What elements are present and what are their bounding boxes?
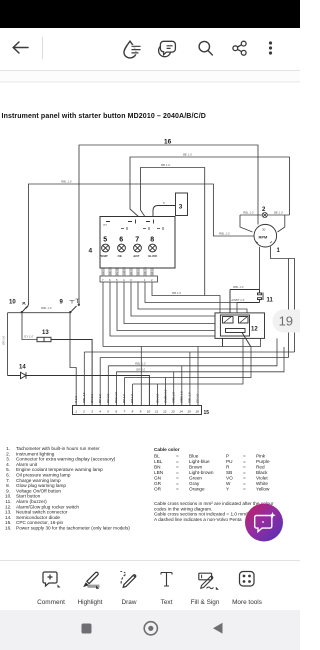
- page top edge: [0, 82, 300, 83]
- svg-text:12.: 12.: [5, 504, 12, 509]
- svg-text:Comment: Comment: [37, 599, 65, 606]
- svg-text:GR 1.0: GR 1.0: [136, 367, 146, 371]
- svg-text:Instrument lighting: Instrument lighting: [16, 451, 55, 456]
- svg-text:16: 16: [164, 138, 172, 145]
- svg-text:RB 1.0: RB 1.0: [130, 394, 134, 403]
- svg-text:GN 1.0: GN 1.0: [156, 393, 160, 403]
- toolbar labels: [37, 599, 262, 606]
- buzzer 11: [230, 285, 274, 317]
- toolbar divider: [42, 37, 43, 59]
- svg-text:GN 1.0: GN 1.0: [103, 267, 105, 275]
- svg-text:White: White: [256, 481, 268, 486]
- svg-text:=: =: [243, 459, 246, 464]
- alarm unit panel 4: [89, 217, 176, 269]
- svg-text:SB: SB: [226, 470, 232, 475]
- svg-text:=: =: [243, 481, 246, 486]
- svg-text:BB 1.0: BB 1.0: [161, 163, 170, 167]
- svg-text:TEMP: TEMP: [100, 254, 108, 258]
- fill & sign icon: [199, 573, 212, 580]
- svg-text:PT: PT: [104, 223, 108, 227]
- svg-text:30: 30: [262, 228, 266, 232]
- svg-text:GY 1.0: GY 1.0: [24, 335, 33, 339]
- svg-text:Instrument panel with starter: Instrument panel with starter button MD2…: [2, 113, 206, 120]
- search icon: [199, 41, 212, 55]
- svg-text:8.: 8.: [6, 483, 10, 488]
- svg-text:9.: 9.: [6, 488, 10, 493]
- svg-text:5.: 5.: [6, 467, 10, 472]
- wire pin3 drop: [131, 282, 215, 316]
- comment tool icon: [43, 572, 57, 586]
- svg-text:=: =: [176, 476, 179, 481]
- svg-text:3.: 3.: [6, 457, 10, 462]
- svg-text:Connector for extra warning di: Connector for extra warning display (acc…: [16, 457, 116, 462]
- bus L6: [125, 347, 252, 378]
- start button 10: [9, 300, 29, 313]
- svg-text:CPC connector, 16-pin: CPC connector, 16-pin: [16, 520, 64, 525]
- svg-text:Black: Black: [256, 470, 268, 475]
- svg-text:10: 10: [147, 410, 151, 414]
- svg-text:OR: OR: [154, 487, 162, 492]
- lamp 8 GLOW warning: [149, 244, 157, 252]
- text tool icon: [161, 573, 172, 587]
- svg-text:VO: VO: [226, 476, 233, 481]
- cable color table: [154, 447, 270, 492]
- svg-text:Semiconductor diode: Semiconductor diode: [16, 515, 60, 520]
- svg-text:WBL 1.0: WBL 1.0: [172, 392, 176, 403]
- wire buttons common rail: [2, 306, 77, 406]
- lamp 6 OIL warning: [118, 244, 126, 252]
- svg-text:13.: 13.: [5, 510, 12, 515]
- svg-text:RBL 1.0: RBL 1.0: [219, 232, 230, 236]
- wire pin6 drop: [110, 282, 215, 336]
- bus L7: [133, 338, 243, 384]
- svg-text:=: =: [176, 470, 179, 475]
- CPC connector 15: [73, 406, 210, 417]
- liquid mode icon: [124, 41, 141, 58]
- svg-text:15.: 15.: [5, 520, 12, 525]
- wire RBL 1.0 main: [29, 184, 255, 303]
- android nav bar: [0, 610, 300, 650]
- box 3 connector extra warning display: [153, 193, 188, 217]
- wire button10 to neutral switch: [22, 313, 37, 340]
- svg-text:Light-brown: Light-brown: [189, 470, 214, 475]
- svg-text:Cable color: Cable color: [154, 447, 180, 452]
- wire 16 label: [164, 138, 172, 145]
- svg-text:LBN 1.0: LBN 1.0: [124, 266, 126, 275]
- svg-text:RBL 1.0: RBL 1.0: [188, 392, 192, 403]
- toolbar back arrow: [13, 42, 28, 53]
- svg-text:Light-blue: Light-blue: [189, 459, 210, 464]
- svg-text:OR 1.0: OR 1.0: [106, 393, 110, 403]
- svg-text:Blue: Blue: [189, 454, 199, 459]
- svg-text:2: 2: [82, 410, 85, 414]
- wire RNBT to buzzer/rocker: [145, 282, 237, 317]
- svg-text:16.: 16.: [5, 526, 12, 531]
- svg-text:BN 1.0: BN 1.0: [131, 268, 133, 275]
- comment icon: [159, 41, 176, 56]
- neutral switch connector 13: [37, 330, 92, 406]
- svg-text:GR 1.0: GR 1.0: [196, 393, 200, 403]
- panel pin strip: [100, 266, 158, 282]
- wire BB 1.0: [141, 168, 205, 296]
- share icon: [233, 41, 246, 55]
- svg-text:11: 11: [155, 410, 158, 414]
- svg-text:RBL 1.0: RBL 1.0: [61, 180, 72, 184]
- wire RNBT to buzzer: [237, 302, 260, 304]
- page number badge 19: [273, 310, 313, 333]
- svg-text:LBN: LBN: [154, 470, 163, 475]
- svg-text:GR: GR: [154, 481, 162, 486]
- svg-text:11.: 11.: [5, 499, 11, 504]
- svg-text:3: 3: [179, 204, 183, 211]
- svg-text:Start button: Start button: [16, 494, 41, 499]
- svg-text:Green: Green: [189, 476, 202, 481]
- svg-text:8: 8: [150, 237, 154, 244]
- bus L3: [100, 357, 288, 359]
- bus L2: [84, 351, 294, 353]
- svg-text:OIL: OIL: [118, 254, 123, 258]
- wire pin5 drop: [117, 282, 215, 331]
- svg-text:Tachometer with built-in hours: Tachometer with built-in hours run meter: [16, 446, 100, 451]
- bus wires to CPC connector: [84, 338, 294, 405]
- svg-text:codes in the wiring diagram.: codes in the wiring diagram.: [154, 506, 212, 511]
- svg-text:A dashed line indicates a non-: A dashed line indicates a non-Volvo Pent…: [154, 517, 242, 522]
- svg-text:RBL 1.5: RBL 1.5: [82, 392, 86, 403]
- svg-text:12: 12: [163, 410, 167, 414]
- bus L4 RBL: [108, 338, 277, 365]
- svg-text:Gray: Gray: [189, 481, 200, 486]
- svg-text:RBL 1.0: RBL 1.0: [145, 266, 147, 275]
- svg-text:2.: 2.: [6, 451, 10, 456]
- svg-text:GNBN 1.0: GNBN 1.0: [164, 389, 168, 403]
- wire pin4 drop: [124, 282, 215, 324]
- tach bottom wires: [260, 246, 295, 357]
- svg-text:6.: 6.: [6, 473, 10, 478]
- overflow menu icon: [269, 41, 272, 54]
- svg-text:15: 15: [187, 410, 191, 414]
- toolbar bottom border: [0, 70, 300, 71]
- svg-text:=: =: [243, 487, 246, 492]
- svg-text:14: 14: [19, 365, 26, 371]
- rocker switch 12: [215, 313, 265, 347]
- svg-text:13: 13: [171, 410, 175, 414]
- svg-text:PU: PU: [226, 459, 233, 464]
- svg-text:13: 13: [42, 330, 49, 336]
- svg-text:=: =: [176, 487, 179, 492]
- svg-text:=: =: [176, 459, 179, 464]
- svg-text:Charge warning lamp: Charge warning lamp: [16, 478, 61, 483]
- wire button9 lower to pin1: [70, 313, 76, 406]
- svg-text:Red: Red: [256, 465, 265, 470]
- svg-text:14: 14: [179, 410, 183, 414]
- svg-text:19: 19: [279, 314, 293, 329]
- svg-text:Fill & Sign: Fill & Sign: [191, 599, 220, 606]
- svg-text:BY 1.0: BY 1.0: [117, 268, 119, 275]
- svg-text:P: P: [226, 454, 229, 459]
- svg-text:BE 1.0: BE 1.0: [183, 153, 192, 157]
- highlight tool icon: [88, 585, 100, 588]
- svg-text:Cable cross sections in mm² ar: Cable cross sections in mm² are indicate…: [154, 501, 274, 506]
- svg-text:Highlight: Highlight: [78, 599, 103, 606]
- svg-text:Alarm/Glow plug rocker switch: Alarm/Glow plug rocker switch: [16, 504, 79, 509]
- svg-text:GN: GN: [154, 476, 161, 481]
- svg-text:Voltage On/Off button: Voltage On/Off button: [16, 488, 61, 493]
- CPC pin cable labels: [74, 389, 200, 403]
- svg-text:Violet: Violet: [256, 476, 268, 481]
- svg-text:GLOW: GLOW: [148, 254, 157, 258]
- lamp 2 instrument lighting: [240, 207, 290, 232]
- svg-text:14.: 14.: [5, 515, 12, 520]
- svg-text:Yellow: Yellow: [256, 487, 270, 492]
- svg-text:=: =: [243, 470, 246, 475]
- svg-text:12: 12: [251, 327, 258, 333]
- svg-text:Text: Text: [161, 599, 173, 606]
- svg-text:Neutral switch connector: Neutral switch connector: [16, 510, 68, 515]
- svg-text:7.: 7.: [6, 478, 10, 483]
- wire pin7 drop: [102, 282, 104, 347]
- svg-text:RB 1.0: RB 1.0: [152, 268, 154, 275]
- svg-text:Engine coolant temperature war: Engine coolant temperature warning lamp: [16, 467, 103, 472]
- svg-text:OR 1.0: OR 1.0: [2, 335, 6, 345]
- svg-text:RBL 1.0: RBL 1.0: [243, 210, 254, 214]
- wire BE 1.0 instrument lighting feed: [130, 157, 290, 218]
- on/off button 9: [60, 299, 80, 313]
- svg-text:BY 1.0: BY 1.0: [98, 394, 102, 403]
- svg-text:BAT: BAT: [134, 254, 140, 258]
- svg-text:4.: 4.: [6, 462, 10, 467]
- svg-text:BL: BL: [154, 454, 160, 459]
- svg-text:Orange: Orange: [189, 487, 205, 492]
- warning lamps 5 6 7 8: [100, 237, 158, 259]
- svg-text:R 1.5: R 1.5: [74, 396, 78, 403]
- svg-text:1.: 1.: [6, 446, 10, 451]
- svg-text:Alarm unit: Alarm unit: [16, 462, 38, 467]
- svg-text:=: =: [176, 465, 179, 470]
- svg-text:GY 1.0: GY 1.0: [90, 394, 94, 403]
- svg-text:LBL: LBL: [154, 459, 163, 464]
- svg-text:Power supply 30 for the tachom: Power supply 30 for the tachometer (only…: [16, 526, 130, 531]
- bus L5 GR: [116, 347, 284, 372]
- wire RBL to buzzer: [230, 290, 260, 317]
- svg-text:5: 5: [103, 237, 107, 244]
- svg-text:RB 1.0: RB 1.0: [172, 291, 181, 295]
- svg-text:RPM: RPM: [259, 235, 269, 240]
- wire pin1 drop: [138, 282, 247, 313]
- svg-text:=: =: [243, 454, 246, 459]
- semiconductor diode 14: [8, 365, 150, 406]
- svg-text:RBL 1.0: RBL 1.0: [41, 306, 52, 310]
- svg-text:Brown: Brown: [189, 465, 203, 470]
- draw tool icon: [123, 575, 136, 588]
- svg-text:16: 16: [196, 410, 200, 414]
- svg-text:RBL 1.0: RBL 1.0: [233, 285, 244, 289]
- panel pin drop wires to bus: [103, 282, 247, 347]
- svg-text:6: 6: [119, 237, 123, 244]
- svg-text:RBL 1.0: RBL 1.0: [110, 266, 112, 275]
- svg-text:RBL 1.0: RBL 1.0: [135, 361, 146, 365]
- svg-text:RNBT 1.0: RNBT 1.0: [232, 298, 245, 302]
- bus L1: [103, 338, 261, 346]
- svg-text:11: 11: [267, 298, 274, 304]
- tachometer 1 with hours counter: [254, 224, 281, 254]
- lamp 7 BAT charge warning: [134, 244, 142, 252]
- svg-text:More tools: More tools: [232, 599, 262, 606]
- svg-text:Draw: Draw: [122, 599, 137, 606]
- svg-text:=: =: [243, 476, 246, 481]
- wire RB 1.0 pin2 to rocker: [152, 282, 220, 313]
- status bar: [0, 0, 300, 28]
- lamp 5 TEMP warning: [102, 244, 110, 252]
- svg-text:Alarm (buzzer): Alarm (buzzer): [16, 499, 47, 504]
- svg-text:BY 1.0: BY 1.0: [122, 394, 126, 403]
- cable cross section note: [154, 501, 274, 522]
- svg-text:Glow plug warning lamp: Glow plug warning lamp: [16, 483, 66, 488]
- svg-text:10.: 10.: [5, 494, 12, 499]
- svg-text:BE 1.0: BE 1.0: [274, 210, 283, 214]
- svg-text:=: =: [176, 454, 179, 459]
- svg-text:W: W: [226, 481, 231, 486]
- svg-text:10: 10: [9, 300, 16, 306]
- svg-text:BN: BN: [154, 465, 161, 470]
- svg-text:GR 1.0: GR 1.0: [138, 267, 140, 275]
- wire OR 1.0 to diode: [7, 313, 9, 376]
- svg-text:Purple: Purple: [256, 459, 270, 464]
- svg-text:=: =: [243, 465, 246, 470]
- svg-text:=: =: [176, 481, 179, 486]
- svg-text:Cable cross sections not indic: Cable cross sections not indicated = 1.0…: [154, 512, 248, 517]
- svg-text:Oil pressure warning lamp: Oil pressure warning lamp: [16, 473, 71, 478]
- svg-text:4: 4: [89, 248, 93, 255]
- svg-text:7: 7: [135, 237, 139, 244]
- wire 16 (power supply 30): [79, 145, 258, 301]
- svg-text:WBN 1.0: WBN 1.0: [180, 391, 184, 403]
- svg-text:Pink: Pink: [256, 454, 266, 459]
- more tools icon: [240, 572, 255, 587]
- svg-text:BGN 1.0: BGN 1.0: [114, 392, 118, 403]
- svg-text:15: 15: [204, 410, 210, 416]
